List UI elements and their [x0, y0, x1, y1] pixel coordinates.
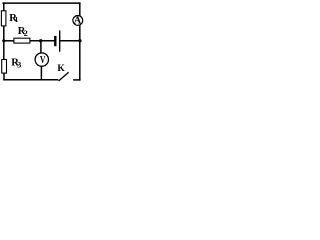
node voltmeter branch	[39, 39, 42, 42]
node junction right	[78, 39, 81, 42]
svg-text:A: A	[74, 15, 82, 26]
wire voltmeter upper	[40, 41, 42, 54]
resistor R1	[1, 11, 6, 26]
wire bottom right	[73, 79, 81, 81]
wire voltmeter lower	[40, 66, 42, 80]
switch K blade	[59, 72, 69, 81]
ammeter U1	[73, 16, 83, 26]
wire middle R2-to-battery	[30, 40, 54, 42]
svg-text:K: K	[57, 64, 65, 74]
wire left lower	[3, 73, 5, 80]
wire bottom left	[3, 79, 58, 81]
wire top	[2, 2, 80, 4]
wire middle battery-to-right	[60, 40, 79, 42]
wire left middle	[3, 26, 5, 60]
svg-text:1: 1	[15, 15, 19, 24]
wire right ammeter-to-node	[79, 25, 81, 41]
resistor R3	[2, 60, 7, 74]
wire right lower	[79, 41, 81, 81]
resistor R2	[14, 38, 30, 43]
node junction left	[2, 39, 5, 42]
battery BT1 negative plate (short thick)	[54, 36, 56, 46]
voltmeter U2	[35, 53, 48, 66]
svg-text:3: 3	[17, 61, 21, 70]
wire left upper	[3, 2, 5, 11]
wire middle node-to-R2	[4, 40, 14, 42]
wire right upper	[79, 2, 81, 16]
svg-text:V: V	[40, 55, 46, 66]
svg-text:2: 2	[24, 29, 28, 38]
battery BT1 positive plate (long thin)	[59, 30, 61, 51]
